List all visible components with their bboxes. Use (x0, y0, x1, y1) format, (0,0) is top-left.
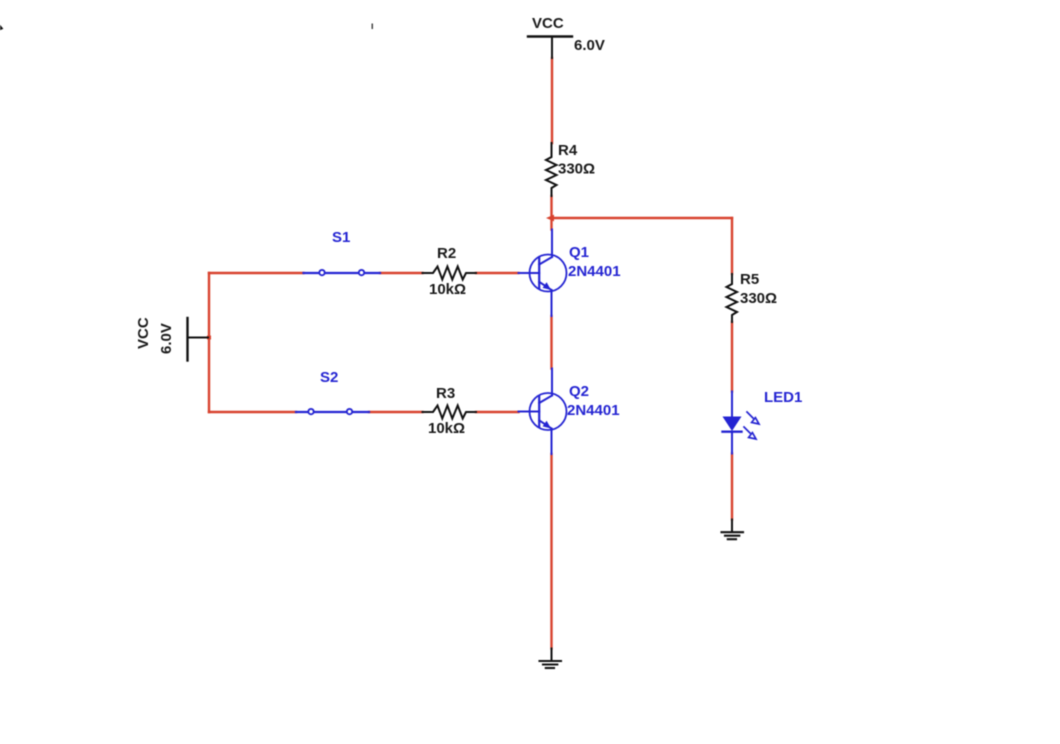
svg-text:6.0V: 6.0V (158, 323, 175, 354)
svg-text:6.0V: 6.0V (574, 37, 605, 54)
svg-text:330Ω: 330Ω (558, 161, 595, 178)
svg-text:10kΩ: 10kΩ (429, 281, 466, 298)
svg-text:R2: R2 (437, 245, 456, 262)
svg-text:R5: R5 (740, 271, 759, 288)
svg-text:2N4401: 2N4401 (568, 263, 621, 280)
svg-text:S1: S1 (332, 229, 350, 246)
svg-text:LED1: LED1 (764, 389, 802, 406)
svg-text:VCC: VCC (135, 317, 152, 349)
svg-text:Q1: Q1 (569, 244, 589, 261)
svg-text:10kΩ: 10kΩ (428, 420, 465, 437)
svg-text:2N4401: 2N4401 (567, 402, 620, 419)
svg-text:330Ω: 330Ω (740, 290, 777, 307)
svg-text:R3: R3 (436, 385, 455, 402)
svg-text:R4: R4 (558, 142, 578, 159)
svg-text:S2: S2 (320, 369, 338, 386)
svg-text:Q2: Q2 (569, 383, 589, 400)
svg-text:VCC: VCC (532, 15, 564, 32)
